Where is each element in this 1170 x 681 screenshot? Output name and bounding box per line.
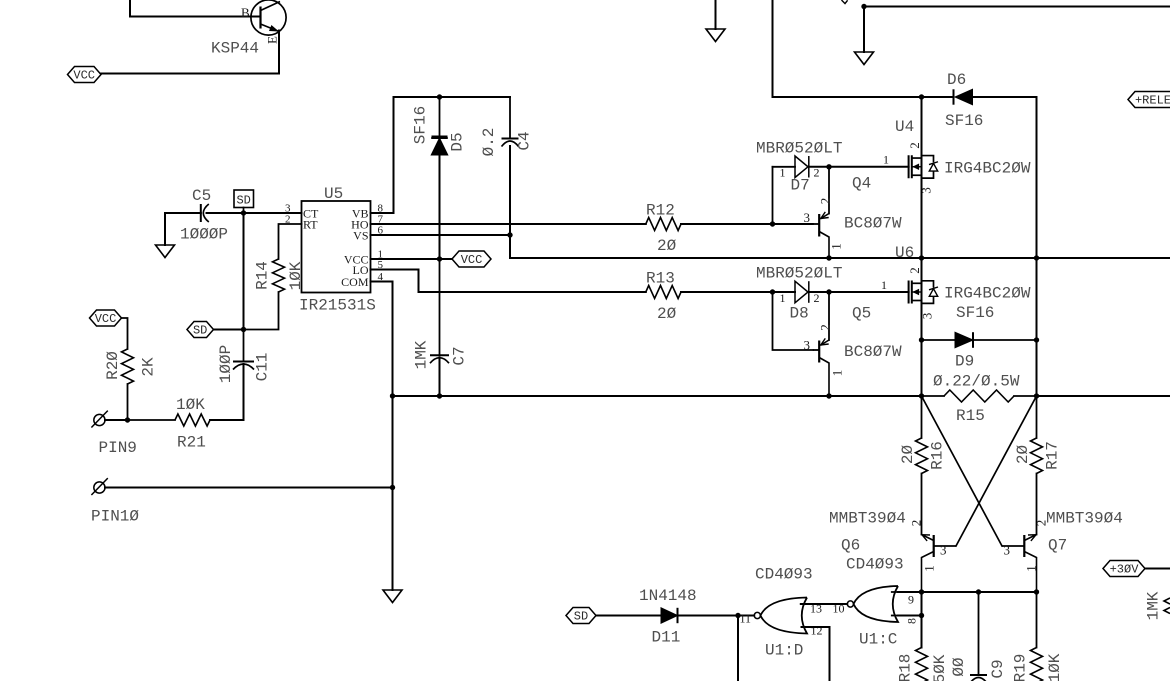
wire [737, 616, 739, 681]
svg-text:1: 1 [780, 166, 786, 180]
transistor Q4 [804, 167, 903, 258]
svg-text:2: 2 [818, 324, 833, 331]
op-amp U5 (IR21531S driver IC) [285, 185, 384, 315]
junction [437, 393, 442, 398]
svg-text:8: 8 [905, 618, 919, 624]
wire [956, 396, 1037, 546]
svg-text:1ØK: 1ØK [1046, 653, 1064, 681]
svg-text:C5: C5 [192, 187, 211, 205]
svg-text:PIN9: PIN9 [99, 439, 137, 457]
svg-text:5ØK: 5ØK [931, 654, 949, 681]
svg-text:1: 1 [881, 278, 887, 292]
svg-text:BC8Ø7W: BC8Ø7W [844, 343, 902, 361]
flag SD [566, 608, 596, 624]
wire [921, 258, 923, 396]
svg-text:CD4Ø93: CD4Ø93 [846, 556, 904, 574]
diode D8 [756, 265, 842, 323]
svg-text:U1:C: U1:C [859, 631, 897, 649]
svg-text:2: 2 [1034, 520, 1049, 527]
svg-text:SD: SD [574, 610, 588, 624]
junction [390, 393, 395, 398]
svg-text:R16: R16 [929, 441, 947, 470]
svg-text:3: 3 [1004, 543, 1011, 558]
diode D6 [945, 71, 983, 130]
junction [919, 613, 924, 618]
svg-text:1: 1 [830, 370, 845, 377]
svg-text:3: 3 [804, 338, 811, 353]
svg-text:SF16: SF16 [956, 304, 994, 322]
wire [802, 627, 830, 681]
wire [1037, 395, 1170, 397]
power flag +RELE [1128, 92, 1170, 108]
svg-text:2Ø: 2Ø [657, 237, 677, 255]
wire [371, 282, 393, 397]
wire [439, 155, 441, 259]
resistor R12 [646, 202, 681, 256]
svg-text:1MK: 1MK [1145, 591, 1163, 620]
svg-text:U4: U4 [895, 118, 914, 136]
power flag VCC [68, 67, 102, 83]
junction [241, 327, 246, 332]
svg-text:BC8Ø7W: BC8Ø7W [844, 215, 902, 233]
resistor R18 [897, 648, 950, 681]
wire fragment (cut component) [842, 0, 848, 4]
svg-text:SD: SD [193, 324, 207, 338]
svg-text:D5: D5 [449, 132, 467, 151]
junction [437, 256, 442, 261]
junction [919, 94, 924, 99]
svg-text:D6: D6 [947, 71, 966, 89]
svg-text:IRG4BC2ØW: IRG4BC2ØW [944, 285, 1031, 303]
junction [770, 221, 775, 226]
svg-text:C4: C4 [516, 131, 534, 150]
svg-text:R17: R17 [1044, 441, 1062, 470]
svg-text:1ØK: 1ØK [287, 261, 305, 290]
svg-text:2: 2 [814, 291, 820, 305]
pin label [883, 153, 889, 167]
svg-text:3: 3 [940, 543, 947, 558]
svg-text:VCC: VCC [73, 69, 95, 83]
svg-text:1ØØP: 1ØØP [217, 345, 235, 383]
capacitor C4 [480, 97, 534, 156]
junction [976, 589, 981, 594]
diode D11 [639, 587, 697, 647]
svg-text:3: 3 [804, 210, 811, 225]
svg-text:D11: D11 [652, 629, 681, 647]
svg-text:VCC: VCC [461, 253, 483, 267]
junction [826, 164, 831, 169]
transistor U6 (IRG4BC20W) [895, 244, 1031, 319]
svg-text:R14: R14 [254, 261, 272, 290]
wire [898, 615, 922, 617]
transistor KSP44 [211, 0, 286, 57]
wire [371, 258, 453, 260]
wire [130, 0, 261, 17]
wire [105, 419, 128, 421]
transistor Q7 [1002, 510, 1123, 593]
wire [371, 270, 646, 293]
wire [773, 0, 954, 97]
capacitor C5 [180, 187, 228, 244]
resistor R19 [1012, 592, 1065, 681]
resistor R20 [104, 318, 158, 420]
svg-text:E: E [265, 36, 280, 44]
flag SD [234, 190, 254, 213]
svg-text:VCC: VCC [95, 312, 117, 326]
junction [735, 613, 740, 618]
svg-text:2: 2 [818, 198, 833, 205]
svg-text:SF16: SF16 [412, 106, 430, 144]
wire [165, 212, 201, 214]
wire [509, 146, 511, 258]
svg-text:1ØØØP: 1ØØØP [180, 226, 228, 244]
wire [973, 97, 1037, 396]
capacitor C9 [950, 592, 1007, 681]
svg-text:1ØK: 1ØK [176, 396, 205, 414]
svg-text:R12: R12 [646, 202, 675, 220]
ground [706, 0, 725, 42]
junction [1034, 589, 1039, 594]
svg-text:SF16: SF16 [945, 112, 983, 130]
svg-text:CD4Ø93: CD4Ø93 [755, 566, 813, 584]
wire [921, 97, 923, 258]
svg-text:2: 2 [909, 520, 924, 527]
wire [681, 223, 813, 225]
wire [801, 603, 847, 605]
svg-text:R18: R18 [897, 654, 915, 681]
svg-text:C11: C11 [254, 353, 272, 382]
svg-text:1: 1 [780, 291, 786, 305]
junction [826, 289, 831, 294]
flag SD [187, 322, 214, 338]
wire [596, 615, 661, 617]
resistor R15 [922, 373, 1037, 426]
junction [919, 393, 924, 398]
svg-text:Ø.2: Ø.2 [480, 128, 498, 157]
ground [855, 7, 874, 65]
svg-text:U6: U6 [895, 244, 914, 262]
port PIN10 [91, 478, 139, 525]
svg-text:U1:D: U1:D [765, 642, 803, 660]
wire [510, 257, 1170, 259]
svg-text:11: 11 [740, 612, 752, 626]
svg-text:KSP44: KSP44 [211, 40, 259, 58]
wire [243, 213, 245, 330]
pin label [881, 278, 887, 292]
wire [439, 358, 441, 397]
svg-text:1: 1 [1024, 565, 1039, 572]
resistor 1MK [1145, 591, 1170, 620]
junction [125, 417, 130, 422]
junction [826, 393, 831, 398]
svg-text:2: 2 [907, 267, 922, 274]
svg-text:1: 1 [883, 153, 889, 167]
junction [437, 94, 442, 99]
transistor Q6 [829, 510, 956, 593]
resistor R13 [646, 270, 681, 324]
svg-text:R13: R13 [646, 270, 675, 288]
wire [921, 592, 923, 648]
diode D9 [922, 304, 1037, 371]
svg-text:Q4: Q4 [852, 175, 871, 193]
power flag VCC [452, 251, 491, 267]
junction [241, 210, 246, 215]
svg-text:IRG4BC2ØW: IRG4BC2ØW [944, 160, 1031, 178]
logic gate U1:D (CD4093) [740, 566, 823, 660]
wire [101, 31, 279, 74]
junction [919, 255, 924, 260]
wire [105, 487, 393, 489]
svg-text:IR21531S: IR21531S [299, 297, 376, 315]
wire [371, 97, 511, 213]
svg-text:RT: RT [303, 218, 318, 232]
power flag +30V [1103, 561, 1145, 577]
ground [156, 213, 175, 258]
resistor R16 [899, 396, 947, 535]
junction [1034, 255, 1039, 260]
svg-text:D9: D9 [955, 353, 974, 371]
svg-text:MBRØ52ØLT: MBRØ52ØLT [756, 140, 842, 158]
power flag VCC [90, 310, 122, 326]
svg-text:R15: R15 [956, 407, 985, 425]
resistor R17 [1014, 396, 1062, 535]
svg-text:Ø.22/Ø.5W: Ø.22/Ø.5W [933, 373, 1020, 391]
svg-text:9: 9 [908, 593, 914, 607]
transistor U4 (IRG4BC20W) [895, 118, 1031, 194]
svg-text:MBRØ52ØLT: MBRØ52ØLT [756, 265, 842, 283]
wire [681, 291, 795, 293]
svg-text:2K: 2K [140, 357, 158, 377]
wire [210, 364, 244, 420]
ground [383, 396, 402, 603]
svg-text:2Ø: 2Ø [657, 305, 677, 323]
logic gate U1:C (CD4093) [833, 556, 919, 649]
wire [678, 615, 754, 617]
svg-text:COM: COM [341, 275, 369, 289]
svg-text:2Ø: 2Ø [899, 445, 917, 465]
svg-text:12: 12 [811, 624, 823, 638]
wire [809, 291, 909, 293]
resistor R21 [128, 396, 211, 452]
svg-text:+3ØV: +3ØV [1110, 563, 1140, 577]
wire [1145, 568, 1170, 570]
junction [861, 4, 866, 9]
junction [1034, 393, 1039, 398]
svg-text:2Ø: 2Ø [1014, 445, 1032, 465]
diode D7 [756, 140, 842, 225]
svg-text:Q5: Q5 [852, 305, 871, 323]
svg-text:MMBT39Ø4: MMBT39Ø4 [1046, 510, 1123, 528]
wire [214, 329, 244, 331]
junction [1034, 337, 1039, 342]
capacitor C7 [413, 259, 469, 369]
svg-text:PIN1Ø: PIN1Ø [91, 508, 139, 526]
junction [919, 337, 924, 342]
svg-text:MMBT39Ø4: MMBT39Ø4 [829, 510, 906, 528]
junction [390, 485, 395, 490]
svg-text:R21: R21 [177, 434, 206, 452]
wire [809, 166, 909, 168]
svg-text:1: 1 [829, 243, 844, 250]
svg-text:ØØ: ØØ [950, 657, 968, 677]
svg-text:VS: VS [353, 229, 368, 243]
svg-text:Q6: Q6 [841, 537, 860, 555]
wire [864, 6, 1170, 8]
svg-text:B: B [241, 5, 250, 20]
wire [892, 591, 922, 593]
svg-text:Q7: Q7 [1048, 537, 1067, 555]
wire [892, 615, 898, 617]
junction [507, 232, 512, 237]
diode D5 [412, 97, 467, 155]
junction [770, 289, 775, 294]
svg-text:1N4148: 1N4148 [639, 587, 697, 605]
svg-text:R2Ø: R2Ø [104, 351, 122, 380]
svg-text:1MK: 1MK [413, 340, 431, 369]
junction [826, 255, 831, 260]
svg-text:D7: D7 [791, 177, 810, 195]
junction [919, 589, 924, 594]
wire [898, 591, 1037, 593]
svg-text:D8: D8 [790, 305, 809, 323]
svg-text:U5: U5 [324, 185, 343, 203]
svg-text:1: 1 [922, 565, 937, 572]
wire [393, 395, 922, 397]
wire [371, 234, 511, 236]
resistor R14 [244, 224, 306, 330]
svg-text:+RELE: +RELE [1135, 94, 1170, 108]
transistor Q5 [773, 292, 903, 396]
svg-text:C7: C7 [451, 346, 469, 365]
wire [371, 223, 646, 225]
svg-text:C9: C9 [989, 659, 1007, 678]
capacitor C11 [217, 330, 272, 384]
wire [922, 396, 1003, 546]
svg-text:10: 10 [833, 602, 845, 616]
svg-text:SD: SD [236, 194, 250, 208]
svg-text:R19: R19 [1012, 654, 1030, 681]
port PIN9 [91, 411, 137, 457]
svg-text:2: 2 [907, 142, 922, 149]
wire [207, 212, 302, 214]
